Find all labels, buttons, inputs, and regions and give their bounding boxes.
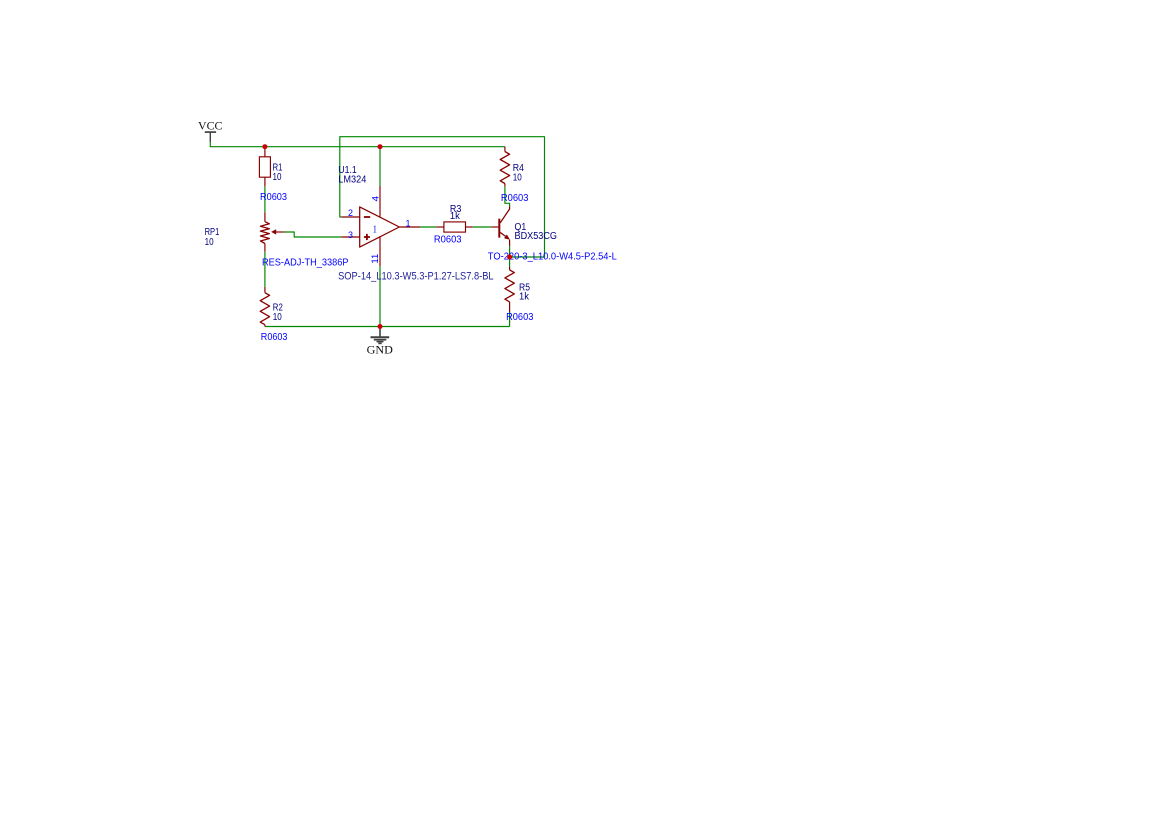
svg-text:RES-ADJ-TH_3386P: RES-ADJ-TH_3386P	[262, 256, 349, 268]
svg-text:1k: 1k	[450, 211, 461, 222]
svg-text:11: 11	[370, 254, 381, 264]
svg-text:VCC: VCC	[198, 121, 223, 133]
svg-text:R0603: R0603	[260, 191, 287, 203]
svg-text:1: 1	[373, 225, 377, 236]
svg-text:3: 3	[348, 230, 353, 241]
svg-text:10: 10	[273, 172, 282, 183]
svg-text:10: 10	[205, 237, 214, 248]
svg-text:1k: 1k	[519, 292, 530, 303]
svg-text:2: 2	[348, 208, 353, 219]
svg-text:10: 10	[273, 312, 282, 323]
svg-text:R0603: R0603	[506, 311, 533, 323]
svg-text:1: 1	[406, 218, 411, 229]
svg-text:R0603: R0603	[434, 234, 462, 246]
svg-text:10: 10	[513, 173, 522, 184]
svg-text:4: 4	[370, 196, 381, 202]
svg-text:GND: GND	[367, 344, 393, 356]
svg-text:SOP-14_L10.3-W5.3-P1.27-LS7.8-: SOP-14_L10.3-W5.3-P1.27-LS7.8-BL	[338, 271, 494, 283]
svg-text:LM324: LM324	[338, 174, 366, 185]
svg-text:BDX53CG: BDX53CG	[515, 231, 558, 242]
svg-text:R0603: R0603	[501, 192, 529, 204]
svg-text:R0603: R0603	[261, 331, 288, 343]
